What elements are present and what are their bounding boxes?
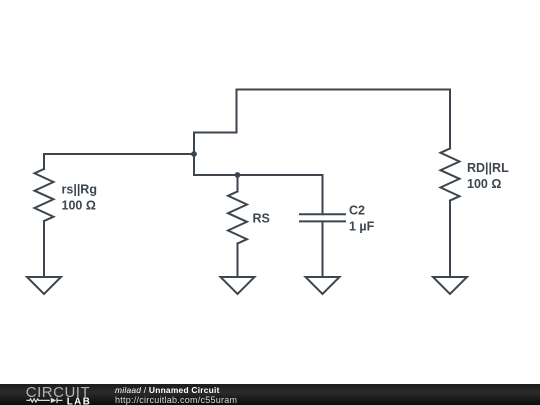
svg-text:100 Ω: 100 Ω bbox=[467, 177, 501, 191]
wire bbox=[236, 90, 238, 133]
resistor rs||Rg bbox=[35, 169, 54, 221]
svg-text:RD||RL: RD||RL bbox=[467, 161, 509, 175]
ground bbox=[221, 277, 255, 294]
svg-text:100 Ω: 100 Ω bbox=[62, 199, 96, 213]
CircuitLab logo bbox=[25, 384, 97, 405]
wire bbox=[43, 221, 45, 277]
wire bbox=[194, 174, 323, 176]
wire bbox=[322, 175, 324, 214]
resistor RD||RL bbox=[441, 149, 460, 201]
wire bbox=[194, 132, 237, 134]
ground bbox=[306, 277, 340, 294]
wire bbox=[322, 221, 324, 277]
node junction B bbox=[235, 172, 241, 178]
wire bbox=[237, 244, 239, 278]
ground bbox=[27, 277, 61, 294]
ground bbox=[433, 277, 467, 294]
wire bbox=[44, 153, 194, 155]
svg-text:RS: RS bbox=[253, 212, 270, 226]
wire bbox=[449, 90, 451, 149]
svg-text:C2: C2 bbox=[349, 204, 365, 218]
footer bar bbox=[0, 384, 540, 405]
capacitor C2 bbox=[300, 214, 345, 221]
svg-text:LAB: LAB bbox=[67, 397, 92, 405]
wire bbox=[237, 89, 451, 91]
node junction A bbox=[191, 151, 197, 157]
wire bbox=[43, 154, 45, 169]
wire bbox=[237, 175, 239, 192]
svg-text:1 µF: 1 µF bbox=[349, 220, 375, 234]
resistor RS bbox=[228, 192, 247, 244]
wire bbox=[449, 201, 451, 278]
footer credit text bbox=[115, 386, 237, 405]
svg-text:rs||Rg: rs||Rg bbox=[62, 183, 97, 197]
wire bbox=[193, 133, 195, 176]
